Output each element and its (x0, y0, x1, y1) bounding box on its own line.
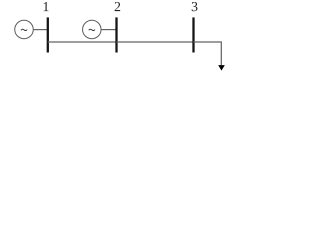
wire G1 to bus 1 (33, 29, 47, 31)
bus 1 label "1" (44, 2, 49, 11)
bus 3 label "3" (192, 2, 198, 11)
load arrowhead (218, 65, 225, 71)
wire line bus 2 to bus 3 (117, 41, 194, 43)
bus 2 label "2" (115, 2, 121, 11)
bus 3 (busbar) (192, 17, 194, 52)
wire bus 3 to load (corner drop) (194, 42, 222, 65)
bus 1 (busbar) (47, 17, 49, 52)
generator G2 tilde (AC source mark) (89, 29, 95, 30)
generator G2 (circle symbol) (83, 20, 102, 39)
wire G2 to bus 2 (101, 29, 116, 31)
wire line bus 1 to bus 2 (48, 41, 117, 43)
generator G1 tilde (AC source mark) (21, 29, 27, 30)
generator G1 (circle symbol) (15, 20, 34, 39)
bus 2 (busbar) (115, 17, 117, 52)
